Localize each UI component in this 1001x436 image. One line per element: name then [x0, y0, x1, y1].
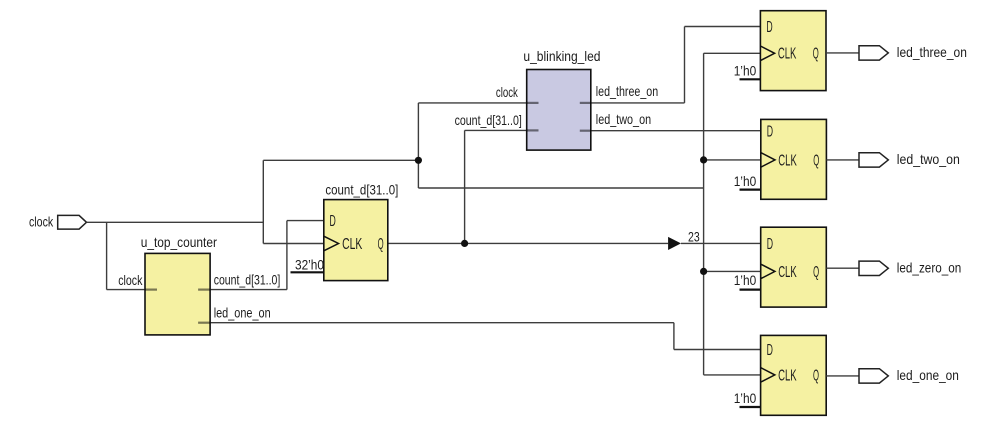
- wire clock to DFF3 CLK: [704, 270, 761, 272]
- flipflop led_two_on: [761, 119, 827, 199]
- underline 1h0 led_one_on: [740, 406, 761, 408]
- svg-text:led_two_on: led_two_on: [596, 111, 651, 127]
- svg-text:led_three_on: led_three_on: [897, 44, 967, 60]
- clk wedge led_one_on: [761, 368, 775, 383]
- svg-text:D: D: [330, 213, 336, 230]
- svg-text:1’h0: 1’h0: [734, 173, 757, 189]
- wire clock to DFF1 CLK: [704, 52, 761, 54]
- svg-text:Q: Q: [813, 264, 819, 281]
- wire count_d from u_top_counter: [210, 289, 287, 291]
- junction clock at x418: [415, 157, 422, 164]
- svg-text:count_d[31..0]: count_d[31..0]: [325, 182, 398, 198]
- wire Q led_one_on to port: [826, 375, 859, 377]
- svg-text:led_two_on: led_two_on: [897, 151, 960, 167]
- clk wedge led_two_on: [761, 153, 775, 168]
- svg-text:CLK: CLK: [342, 236, 362, 253]
- pin stub led_three_on: [580, 102, 591, 104]
- svg-text:Q: Q: [813, 46, 819, 63]
- svg-text:1’h0: 1’h0: [734, 272, 757, 288]
- wire led_one_on drop: [673, 323, 675, 350]
- svg-text:D: D: [767, 342, 773, 359]
- svg-text:CLK: CLK: [778, 367, 797, 384]
- junction clock DFF3 tap: [700, 268, 707, 275]
- svg-text:led_three_on: led_three_on: [596, 83, 658, 99]
- wire clock trunk horizontal: [263, 159, 418, 161]
- svg-text:32’h0: 32’h0: [295, 256, 324, 272]
- junction clock DFF2 tap: [700, 156, 707, 163]
- pin stub count_d u_top_counter: [198, 289, 210, 291]
- svg-text:CLK: CLK: [778, 46, 797, 63]
- wire bit23 to DFF3 D: [681, 242, 761, 244]
- wire clock drop to u_top_counter: [106, 222, 108, 289]
- module u_top_counter: [145, 253, 210, 335]
- flipflop led_zero_on: [761, 227, 827, 307]
- wire clock vertical riser: [262, 160, 264, 243]
- svg-text:1’h0: 1’h0: [734, 390, 757, 406]
- pin stub led_one_on u_top_counter: [198, 322, 210, 324]
- svg-text:Q: Q: [378, 236, 384, 253]
- underline 1h0 led_two_on: [740, 189, 761, 191]
- output port led_zero_on: [859, 261, 888, 275]
- wire led_three_on riser: [684, 27, 686, 103]
- wire count_d to D of count_d reg: [287, 220, 324, 222]
- wire led_three_on to DFF1 D: [685, 26, 761, 28]
- wire into u_top_counter clock pin: [107, 289, 145, 291]
- svg-text:u_blinking_led: u_blinking_led: [523, 48, 600, 64]
- wire clock to DFF2 CLK: [704, 159, 761, 161]
- wire clock to count_d CLK: [263, 243, 324, 245]
- svg-text:led_one_on: led_one_on: [214, 305, 271, 321]
- pin stub clock u_blinking_led: [527, 102, 539, 104]
- svg-text:Q: Q: [813, 152, 819, 169]
- input port clock: [58, 215, 87, 229]
- wire Q of count_d to bus tap: [388, 242, 668, 244]
- wire count_d vertical riser: [286, 221, 288, 290]
- wire clock horizontal from port: [87, 221, 264, 223]
- svg-text:led_one_on: led_one_on: [897, 367, 959, 383]
- clk wedge count_d: [324, 236, 339, 251]
- clk wedge led_zero_on: [761, 264, 775, 279]
- svg-text:Q: Q: [813, 367, 819, 384]
- clk wedge led_three_on: [760, 46, 774, 61]
- svg-text:clock: clock: [29, 213, 54, 229]
- wire clock vertical at x418: [417, 103, 419, 188]
- wire clock vertical DFF bank: [703, 53, 705, 375]
- wire led_two_on to DFF2 D: [591, 130, 761, 132]
- svg-text:D: D: [767, 123, 773, 140]
- underline 1h0 led_three_on: [740, 78, 761, 80]
- svg-text:23: 23: [688, 228, 700, 244]
- flipflop led_three_on: [760, 11, 826, 91]
- pin stub led_two_on: [580, 130, 591, 132]
- svg-text:CLK: CLK: [778, 264, 797, 281]
- output port led_two_on: [859, 153, 888, 167]
- svg-text:1’h0: 1’h0: [734, 63, 757, 79]
- svg-text:count_d[31..0]: count_d[31..0]: [455, 112, 522, 128]
- module u_blinking_led: [527, 70, 591, 151]
- svg-text:D: D: [767, 236, 773, 253]
- wire Q led_zero_on to port: [826, 267, 859, 269]
- svg-text:count_d[31..0]: count_d[31..0]: [214, 272, 281, 288]
- wire led_one_on from u_top_counter: [210, 322, 674, 324]
- wire count_d riser to u_blinking_led: [464, 130, 466, 243]
- register count_d[31..0]: [324, 200, 388, 281]
- output port led_three_on: [859, 46, 888, 60]
- bus tap bit 23: [668, 237, 681, 250]
- svg-text:u_top_counter: u_top_counter: [141, 234, 218, 250]
- pin stub count_d u_blinking_led: [527, 129, 539, 131]
- wire led_one_on to DFF4 D: [674, 349, 761, 351]
- svg-text:CLK: CLK: [778, 152, 797, 169]
- wire count_d into u_blinking_led pin: [465, 129, 527, 131]
- wire clock to u_blinking_led clock pin: [418, 102, 526, 104]
- svg-text:clock: clock: [118, 272, 143, 288]
- wire Q led_two_on to port: [826, 159, 859, 161]
- wire clock trunk to DFF bank: [418, 187, 703, 189]
- wire Q led_three_on to port: [826, 52, 859, 54]
- svg-text:D: D: [766, 19, 772, 36]
- underline 32h0: [291, 271, 324, 273]
- junction count_d Q: [461, 240, 468, 247]
- flipflop led_one_on: [761, 335, 827, 415]
- svg-text:led_zero_on: led_zero_on: [897, 259, 962, 275]
- pin stub clock u_top_counter: [145, 289, 157, 291]
- output port led_one_on: [859, 369, 888, 383]
- underline 1h0 led_zero_on: [740, 289, 761, 291]
- wire clock to DFF4 CLK: [704, 374, 761, 376]
- wire led_three_on from u_blinking_led: [591, 102, 685, 104]
- svg-text:clock: clock: [496, 84, 519, 100]
